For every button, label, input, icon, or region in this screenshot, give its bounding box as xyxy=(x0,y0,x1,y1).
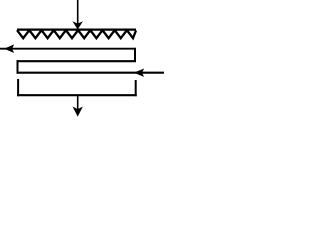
left force arrow line xyxy=(0,45,136,52)
bottom force arrow xyxy=(73,96,82,116)
top force arrow xyxy=(73,0,82,29)
upper plate left edge xyxy=(17,60,19,73)
lower channel left edge xyxy=(17,79,19,96)
lower channel right edge xyxy=(135,80,137,96)
upper plate top edge xyxy=(17,60,137,62)
upper plate bottom edge with right force arrow xyxy=(17,69,165,76)
fixed wall line xyxy=(17,29,136,31)
lower channel bottom edge xyxy=(17,94,137,96)
connector from arrow line down to upper plate xyxy=(134,48,136,62)
wall hatching zigzag xyxy=(17,30,136,38)
